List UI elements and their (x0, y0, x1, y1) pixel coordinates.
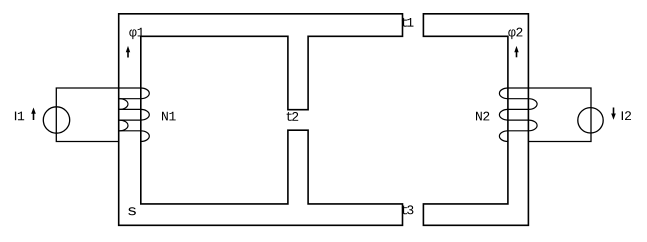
label I2 (622, 111, 631, 120)
current source I1 (43, 107, 69, 133)
label N1 (162, 112, 176, 121)
label t2 (air gap center) (287, 112, 299, 121)
arrow I2 (down) (611, 108, 616, 120)
label I1 (15, 112, 24, 121)
label t3 (air gap bottom) (402, 205, 414, 214)
label phi1 (129, 28, 144, 39)
label phi2 (508, 28, 522, 39)
flux arrow phi1 (up, in left limb) (126, 46, 130, 58)
arrow I1 (up) (31, 108, 36, 121)
coil N1 (arcs around left limb) (119, 88, 149, 142)
wire I2 loop (top lead, right lead, bottom lead) (508, 88, 591, 142)
flux arrow phi2 (up, in right limb) (514, 46, 518, 57)
label t1 (air gap top) (402, 18, 414, 27)
label N2 (476, 112, 489, 121)
current source I2 (578, 108, 603, 133)
coil N2 (arcs around right limb) (499, 88, 537, 142)
core left piece (C-core with center-leg stubs forming gap t2) (119, 14, 403, 226)
label S (core cross-section area) (128, 207, 136, 215)
core right piece (C-core facing left, gaps t1 and t3) (423, 14, 528, 226)
wire I1 loop (top lead, left lead, bottom lead) (56, 88, 140, 142)
